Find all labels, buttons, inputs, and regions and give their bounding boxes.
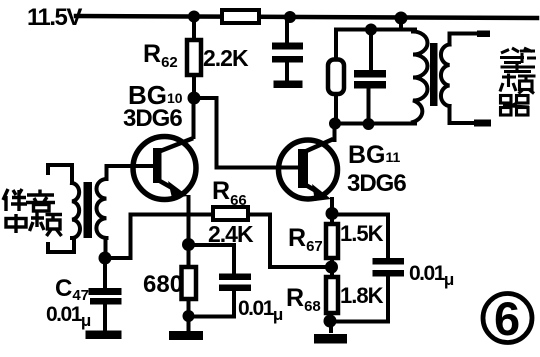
capacitor C47 xyxy=(103,258,107,331)
inductor tank primary coil xyxy=(413,32,428,123)
node rail/R62 xyxy=(188,11,200,23)
resistor (top rail, unlabeled) xyxy=(222,10,259,23)
wire C47 node to emitter row xyxy=(105,215,131,259)
svg-text:3DG6: 3DG6 xyxy=(347,170,406,197)
svg-text:1.8K: 1.8K xyxy=(340,283,384,308)
wire to ground xyxy=(187,316,191,332)
wire BG10 base xyxy=(108,164,153,168)
svg-text:6: 6 xyxy=(494,292,520,345)
wire BG10 collector xyxy=(192,98,196,137)
wire BG10 emitter down xyxy=(187,197,191,245)
wire rail to R62 xyxy=(192,17,196,42)
label 鉴频器 (discriminator) xyxy=(500,48,536,115)
wire secondary top to BG10 base xyxy=(105,166,109,179)
svg-text:2.2K: 2.2K xyxy=(203,45,249,71)
wire coupling collector BG10 to base BG11 xyxy=(194,98,298,168)
capacitor emitter bypass 0.01u xyxy=(189,245,235,317)
ground (under rail bypass cap) xyxy=(274,81,303,89)
resistor tank damping (unlabeled) xyxy=(334,30,338,124)
node rail/tank-feed xyxy=(395,12,408,25)
resistor R68 xyxy=(326,277,338,313)
ground (under C47) xyxy=(86,331,122,340)
transformer core xyxy=(430,43,438,106)
wire tank top line xyxy=(336,28,415,32)
node BG11 emitter xyxy=(326,207,339,220)
label 中频 xyxy=(6,213,62,237)
ground (under R68) xyxy=(314,334,347,344)
transistor BG10 base bar xyxy=(153,148,162,183)
transistor Q1 BG10 circle xyxy=(133,137,196,200)
node tank left / collector xyxy=(329,118,341,130)
resistor 680 xyxy=(187,245,191,317)
transformer sound-IF: secondary coil xyxy=(96,179,106,238)
transistor Q2 BG11 circle xyxy=(279,140,338,199)
wire R62 to collector node xyxy=(192,75,196,98)
transformer sound-IF: primary top terminal xyxy=(48,165,72,183)
wire top supply rail xyxy=(76,16,537,18)
node R62/collector/coupling xyxy=(188,92,201,105)
node R67/R68 xyxy=(325,261,338,274)
wire tank feed xyxy=(399,18,403,30)
node secondary/C47 xyxy=(99,252,112,265)
resistor R62 xyxy=(187,40,201,75)
inductor secondary coil xyxy=(441,45,450,107)
wire BG11 emitter down xyxy=(330,199,334,214)
transformer sound-IF: primary coil xyxy=(72,183,80,238)
svg-text:3DG6: 3DG6 xyxy=(123,105,182,132)
transistor BG11 base bar xyxy=(298,149,308,188)
wire tank bottom line xyxy=(334,122,415,126)
resistor R66 xyxy=(213,207,248,220)
label 伴音 xyxy=(3,189,55,211)
node tank-cap top xyxy=(365,24,377,36)
node tank-cap bottom xyxy=(363,118,375,130)
transistor BG10 emitter stroke + arrow xyxy=(158,180,174,189)
transistor BG10 collector stroke xyxy=(158,139,191,152)
wire R68 to ground xyxy=(329,313,333,331)
node emitter/680 xyxy=(182,238,195,251)
wire secondary bottom to C47 node xyxy=(104,238,108,258)
capacitor rail bypass (wire+plates) xyxy=(285,19,289,81)
transistor BG11 collector stroke xyxy=(304,140,331,152)
svg-text:680: 680 xyxy=(143,271,183,298)
svg-text:1.5K: 1.5K xyxy=(340,221,384,246)
figure number 6 xyxy=(483,294,532,343)
wire secondary bottom terminal xyxy=(450,106,488,123)
node 680/gnd xyxy=(183,310,195,322)
wire emitter row to R66 xyxy=(131,213,214,217)
wire secondary top terminal xyxy=(450,34,488,45)
wire BG11 collector to tank xyxy=(333,124,337,141)
transformer sound-IF: primary bottom terminal xyxy=(48,238,74,252)
resistor R67 xyxy=(330,214,334,278)
transistor BG11 emitter stroke + arrow xyxy=(304,184,318,192)
capacitor tank xyxy=(369,30,372,125)
transformer sound-IF core xyxy=(84,182,93,238)
node R68/gnd xyxy=(324,315,337,328)
ground (under 680) xyxy=(169,331,203,340)
node rail/bypass-cap xyxy=(284,11,296,23)
capacitor BG11 emitter bypass 0.01u xyxy=(330,215,388,322)
wire R66 to R67/R68 node xyxy=(248,215,331,268)
